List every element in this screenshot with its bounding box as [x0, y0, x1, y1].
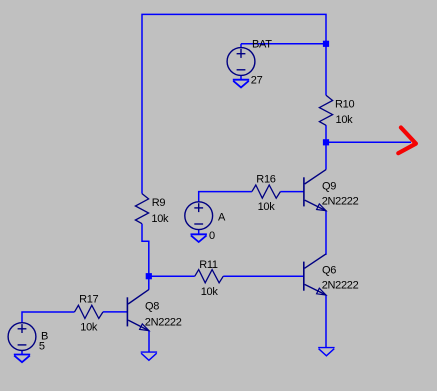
svg-text:R10: R10: [335, 99, 354, 111]
svg-text:R9: R9: [152, 197, 166, 209]
svg-text:0: 0: [209, 230, 215, 242]
svg-text:R17: R17: [79, 294, 98, 306]
svg-text:2N2222: 2N2222: [322, 195, 359, 207]
svg-text:R11: R11: [199, 259, 218, 271]
svg-text:Q6: Q6: [322, 265, 336, 277]
svg-text:A: A: [218, 211, 226, 223]
svg-text:2N2222: 2N2222: [322, 279, 359, 291]
svg-text:5: 5: [39, 340, 45, 352]
svg-text:Q9: Q9: [322, 181, 336, 193]
svg-text:10k: 10k: [80, 322, 98, 334]
svg-text:R16: R16: [256, 174, 275, 186]
svg-text:Q8: Q8: [145, 301, 159, 313]
svg-text:10k: 10k: [336, 114, 354, 126]
svg-text:10k: 10k: [201, 286, 219, 298]
svg-text:10k: 10k: [258, 201, 276, 213]
svg-text:2N2222: 2N2222: [145, 316, 182, 328]
svg-text:27: 27: [251, 74, 263, 86]
svg-text:BAT: BAT: [252, 38, 272, 50]
svg-text:10k: 10k: [151, 213, 169, 225]
